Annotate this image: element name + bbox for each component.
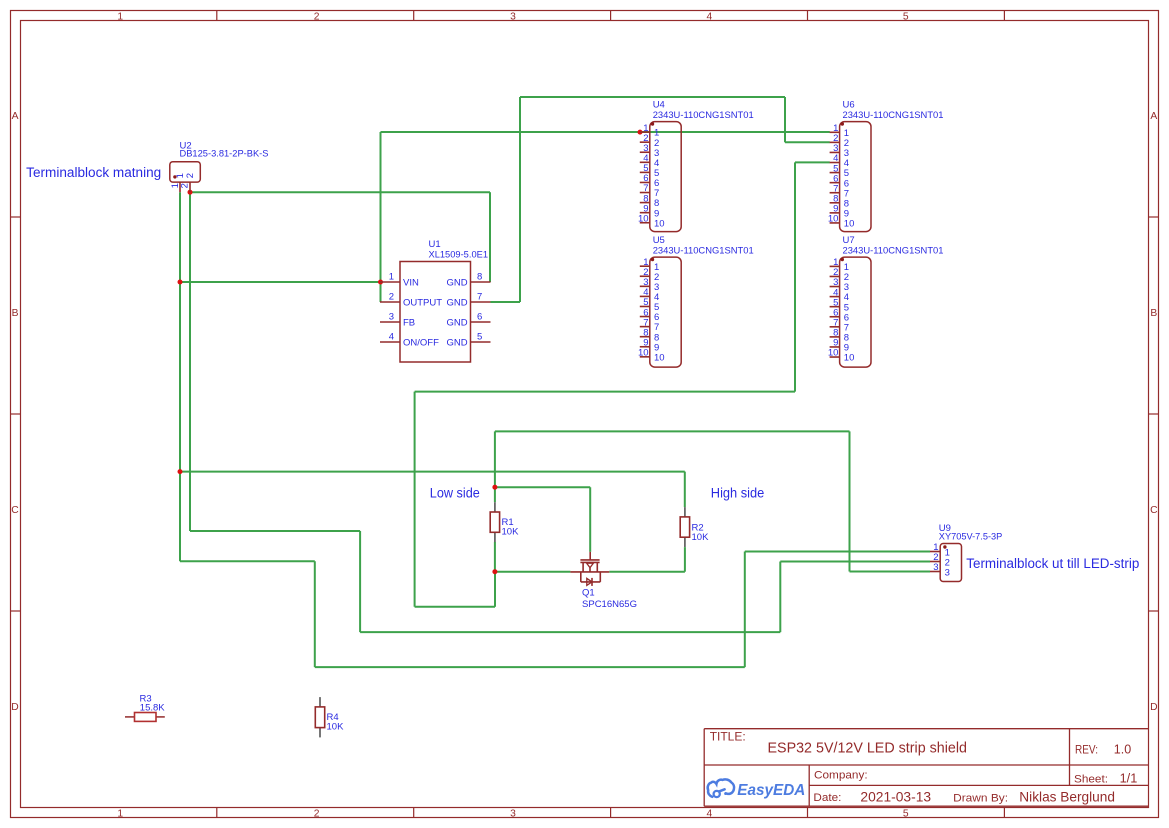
svg-text:5: 5: [903, 11, 909, 22]
svg-text:B: B: [12, 308, 19, 319]
U4 pin 5: [640, 163, 659, 179]
resistor R2 10K leads: [684, 507, 686, 547]
wire net GND: east: [190, 530, 360, 532]
U6 pin 1: [830, 123, 849, 139]
svg-text:2: 2: [389, 292, 394, 303]
U9 pin 3: [930, 562, 950, 578]
U4 pin 10: [638, 213, 665, 229]
svg-text:Terminalblock matning: Terminalblock matning: [26, 165, 161, 180]
U7 pin 3: [830, 277, 849, 293]
connector U4 2343U-110CNG1SNT01 body: [650, 122, 681, 232]
svg-text:4: 4: [707, 11, 713, 22]
svg-text:10K: 10K: [327, 721, 345, 732]
U5 pin 6: [640, 307, 659, 323]
U1 pin 4 ON/OFF: [380, 332, 439, 349]
svg-text:D: D: [11, 702, 18, 713]
wire net SW: junction to Q1 source: [495, 571, 570, 573]
wire net 5V: top rail to U4/U6 pin1: [381, 131, 830, 133]
wire net SW: east: [415, 606, 495, 608]
wire net GATE: junction to Q1 gate: [495, 486, 590, 488]
svg-text:Terminalblock ut till LED-stri: Terminalblock ut till LED-strip: [966, 556, 1139, 571]
wire net GND: to U9 pin2: [780, 561, 930, 563]
svg-text:ESP32 5V/12V LED strip shield: ESP32 5V/12V LED strip shield: [768, 739, 968, 756]
svg-text:SPC16N65G: SPC16N65G: [582, 599, 637, 610]
U4 pin 4: [640, 153, 659, 169]
wire net 5V: vertical at U1: [380, 132, 382, 302]
svg-text:2: 2: [180, 183, 191, 188]
svg-text:U6: U6: [843, 100, 855, 111]
junction +12V / U1 VIN branch: [178, 280, 183, 285]
U7 pin 10: [828, 348, 855, 364]
wire net +12V: long run west: [180, 471, 685, 473]
U5 pin 7: [640, 317, 659, 333]
svg-text:10: 10: [828, 348, 839, 359]
resistor R3 body: [135, 713, 157, 722]
svg-text:REV:: REV:: [1075, 742, 1098, 756]
U4 pin 8: [640, 193, 659, 209]
U7 pin 6: [830, 307, 849, 323]
U5 pin 5: [640, 297, 659, 313]
U5 pin 3: [640, 277, 659, 293]
svg-text:High side: High side: [711, 485, 765, 500]
svg-text:10: 10: [638, 348, 649, 359]
wire net GND: up to U9: [779, 562, 781, 633]
resistor R4 body: [315, 707, 324, 728]
svg-text:GND: GND: [446, 337, 467, 348]
svg-text:GND: GND: [446, 277, 467, 288]
svg-text:D: D: [1150, 702, 1157, 713]
U1 pin 8 GND: [446, 272, 490, 289]
svg-text:Low side: Low side: [430, 485, 480, 500]
connector U5 2343U-110CNG1SNT01 body: [650, 257, 681, 367]
svg-text:GND: GND: [446, 297, 467, 308]
U6 pin 4: [830, 153, 849, 169]
svg-text:1.0: 1.0: [1114, 741, 1131, 756]
svg-text:XY705V-7.5-3P: XY705V-7.5-3P: [939, 532, 1003, 543]
svg-text:Sheet:: Sheet:: [1074, 773, 1108, 785]
svg-text:2021-03-13: 2021-03-13: [860, 788, 931, 804]
wire net SW: long run west: [415, 391, 795, 393]
U7 pin 9: [830, 338, 849, 354]
resistor R1 body: [490, 512, 499, 532]
svg-text:10K: 10K: [502, 526, 520, 537]
title block frame: [704, 729, 1148, 807]
svg-text:DB125-3.81-2P-BK-S: DB125-3.81-2P-BK-S: [180, 149, 269, 160]
svg-text:Company:: Company:: [814, 769, 868, 781]
svg-text:2: 2: [314, 808, 320, 819]
U1 pin 5 GND: [446, 332, 490, 349]
U4 pin 6: [640, 173, 659, 189]
svg-text:8: 8: [477, 272, 482, 283]
wire net +12V: R2 top up: [684, 472, 686, 508]
U6 pin 6: [830, 173, 849, 189]
svg-text:U7: U7: [843, 235, 855, 246]
wire net GND: down to U1 pin8: [489, 192, 491, 282]
svg-text:2: 2: [314, 11, 320, 22]
U5 pin 2: [640, 267, 659, 283]
svg-text:GND: GND: [446, 317, 467, 328]
junction gate node: [492, 485, 497, 490]
svg-text:Q1: Q1: [582, 587, 595, 598]
U7 pin 5: [830, 297, 849, 313]
U1 pin 2 OUTPUT: [380, 292, 442, 309]
transistor Q1 SPC16N65G: [570, 552, 609, 586]
U6 pin 3: [830, 143, 849, 159]
wire net GND: U2 pin2 east: [190, 191, 490, 193]
svg-text:FB: FB: [403, 317, 415, 328]
svg-text:7: 7: [477, 292, 482, 303]
U5 pin 1: [640, 257, 659, 273]
svg-text:10: 10: [844, 353, 855, 364]
connector U6 2343U-110CNG1SNT01 body: [840, 122, 871, 232]
svg-text:10: 10: [828, 214, 839, 225]
svg-text:1: 1: [117, 808, 123, 819]
resistor R3 15.8K leads: [125, 716, 165, 718]
EasyEDA logo cloud icon: [708, 779, 734, 797]
junction at U1 VIN: [378, 280, 383, 285]
svg-text:A: A: [1150, 111, 1157, 122]
U4 pin 3: [640, 143, 659, 159]
wire net +12V: bottom run east: [180, 560, 315, 562]
svg-text:4: 4: [389, 332, 394, 343]
wire net SW2: up to R2 bottom: [684, 547, 686, 572]
wire net +12V: to U9 pin1: [745, 551, 930, 553]
svg-text:B: B: [1150, 308, 1157, 319]
svg-text:10: 10: [654, 352, 665, 363]
wire net SW: R1 bottom lead: [494, 542, 496, 572]
wire net GATE: run east: [495, 430, 850, 432]
svg-text:5: 5: [477, 332, 482, 343]
svg-text:3: 3: [510, 11, 516, 22]
U5 pin 9: [640, 337, 659, 353]
U6 pin 2: [830, 133, 849, 149]
svg-text:4: 4: [707, 808, 713, 819]
svg-text:EasyEDA: EasyEDA: [737, 782, 805, 799]
wire net SW: up to R1 bottom junction: [494, 572, 496, 607]
U7 pin 7: [830, 318, 849, 334]
junction R1 bottom: [492, 569, 497, 574]
svg-text:C: C: [1150, 505, 1158, 516]
junction at U4 pin1: [638, 130, 643, 135]
U6 pin 10: [828, 214, 855, 230]
svg-text:TITLE:: TITLE:: [710, 729, 746, 743]
connector U2 DB125-3.81-2P-BK-S body: [170, 162, 201, 182]
svg-text:3: 3: [933, 562, 938, 573]
junction at U2 pin2: [188, 190, 193, 195]
wire net SW: down: [414, 392, 416, 607]
svg-text:6: 6: [477, 312, 482, 323]
wire net GND2: up: [519, 97, 521, 302]
U9 pin 1: [930, 542, 950, 558]
resistor R4 10K leads: [319, 697, 321, 737]
U4 pin 2: [640, 133, 659, 149]
svg-text:C: C: [11, 505, 19, 516]
U1 pin 1 VIN: [380, 272, 419, 289]
op-amp U1 XL1509-5.0E1 body: [400, 262, 471, 363]
U6 pin 8: [830, 193, 849, 209]
U1 pin 6 GND: [446, 312, 490, 329]
resistor R1 10K leads: [494, 502, 496, 542]
svg-text:3: 3: [945, 568, 950, 579]
svg-text:10: 10: [844, 219, 855, 230]
U6 pin 5: [830, 163, 849, 179]
wire net GND2: to U6 pin2: [785, 141, 830, 143]
U6 pin 7: [830, 183, 849, 199]
U5 pin 10: [638, 348, 665, 364]
U2 pin 1: [170, 173, 186, 192]
wire net SW: down: [794, 162, 796, 391]
svg-text:10: 10: [638, 213, 649, 224]
svg-text:U1: U1: [429, 239, 441, 250]
wire net GATE: to U9 pin3: [850, 571, 931, 573]
U7 pin 2: [830, 267, 849, 283]
U4 pin 1: [640, 123, 659, 139]
wire net +12V: down: [314, 561, 316, 667]
svg-text:3: 3: [510, 808, 516, 819]
svg-text:5: 5: [903, 808, 909, 819]
U9 pin 2: [930, 552, 950, 568]
svg-text:1/1: 1/1: [1120, 771, 1138, 785]
svg-text:1: 1: [117, 11, 123, 22]
wire net GND: U2 pin2 down: [189, 192, 191, 531]
wire net GND2: down: [784, 97, 786, 142]
svg-text:A: A: [12, 111, 19, 122]
wire net GATE: down to gate: [589, 487, 591, 552]
junction +12V / R2 run: [178, 469, 183, 474]
resistor R2 body: [680, 517, 689, 537]
connector U7 2343U-110CNG1SNT01 body: [840, 257, 871, 367]
wire net +12V: branch to U1 VIN: [180, 281, 381, 283]
svg-text:15.8K: 15.8K: [140, 703, 165, 714]
svg-text:2343U-110CNG1SNT01: 2343U-110CNG1SNT01: [653, 246, 754, 257]
U7 pin 1: [830, 257, 849, 273]
svg-text:2: 2: [185, 173, 196, 178]
U1 pin 7 GND: [446, 292, 490, 309]
svg-text:10: 10: [654, 218, 665, 229]
wire net GND: bottom run east: [360, 631, 780, 633]
svg-text:U4: U4: [653, 100, 665, 111]
U2 pin 2: [180, 173, 196, 192]
svg-text:2343U-110CNG1SNT01: 2343U-110CNG1SNT01: [843, 110, 944, 121]
wire net GND: down: [359, 531, 361, 632]
U7 pin 4: [830, 287, 849, 303]
U7 pin 8: [830, 328, 849, 344]
wire net GATE: down to U9: [849, 431, 851, 571]
connector U9 XY705V-7.5-3P body: [940, 544, 961, 582]
svg-text:U5: U5: [653, 235, 665, 246]
U4 pin 9: [640, 203, 659, 219]
U1 pin 3 FB: [380, 312, 415, 329]
svg-text:Drawn By:: Drawn By:: [953, 792, 1008, 804]
wire net SW2: Q1 drain to R2: [609, 571, 685, 573]
svg-text:OUTPUT: OUTPUT: [403, 297, 442, 308]
svg-text:1: 1: [389, 272, 394, 283]
wire net +12V: up to U9: [744, 552, 746, 668]
U5 pin 8: [640, 327, 659, 343]
svg-text:10K: 10K: [692, 532, 710, 543]
svg-text:Date:: Date:: [813, 792, 841, 804]
U4 pin 7: [640, 183, 659, 199]
svg-text:2343U-110CNG1SNT01: 2343U-110CNG1SNT01: [653, 110, 754, 121]
svg-text:XL1509-5.0E1: XL1509-5.0E1: [429, 250, 489, 261]
wire net GATE: R1 top lead: [494, 487, 496, 502]
U6 pin 9: [830, 204, 849, 220]
svg-text:2343U-110CNG1SNT01: 2343U-110CNG1SNT01: [843, 246, 944, 257]
svg-text:3: 3: [389, 312, 394, 323]
wire net GATE: up: [494, 431, 496, 487]
wire net GND2: top run east: [520, 96, 785, 98]
svg-text:ON/OFF: ON/OFF: [403, 337, 439, 348]
wire net GND2: U1 pin7 east: [491, 301, 521, 303]
wire net SW: U6 pin4 west: [795, 161, 830, 163]
U5 pin 4: [640, 287, 659, 303]
svg-text:VIN: VIN: [403, 277, 419, 288]
svg-text:Niklas Berglund: Niklas Berglund: [1019, 788, 1115, 804]
wire net +12V: long bottom run: [315, 666, 745, 668]
wire net +12V: U2 pin1 down: [179, 192, 181, 561]
